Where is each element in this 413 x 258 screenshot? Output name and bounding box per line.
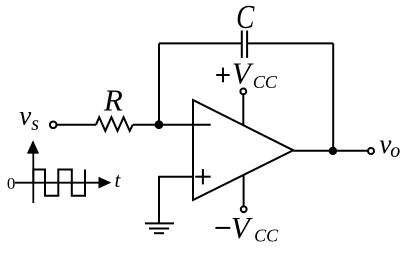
svg-text:0: 0 xyxy=(7,174,16,193)
svg-text:o: o xyxy=(390,140,400,162)
svg-text:C: C xyxy=(236,0,255,36)
svg-text:s: s xyxy=(31,113,39,135)
svg-text:v: v xyxy=(19,100,31,130)
svg-text:CC: CC xyxy=(254,226,279,246)
svg-text:V: V xyxy=(231,210,253,245)
svg-text:V: V xyxy=(232,56,254,91)
svg-text:CC: CC xyxy=(253,72,278,92)
svg-text:R: R xyxy=(103,83,123,118)
